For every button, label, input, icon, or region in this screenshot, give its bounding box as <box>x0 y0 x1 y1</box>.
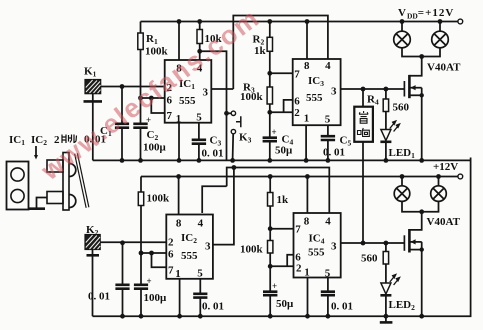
svg-text:4: 4 <box>325 216 331 228</box>
svg-text:3: 3 <box>203 87 209 99</box>
wire IC4 pin5 <box>327 278 329 292</box>
svg-text:5: 5 <box>197 268 203 280</box>
svg-text:3: 3 <box>205 241 211 253</box>
capacitor C4 50u <box>269 112 271 137</box>
wire IC1 pin1 to ground <box>178 123 180 161</box>
resistor 1k bottom-middle <box>269 177 271 193</box>
svg-text:0. 01: 0. 01 <box>323 147 345 159</box>
svg-text:5: 5 <box>196 112 202 124</box>
lamp L1 <box>401 22 403 32</box>
svg-text:555: 555 <box>306 92 323 104</box>
wire IC3 pin5 <box>327 125 329 136</box>
svg-text:1: 1 <box>304 267 310 279</box>
wire K1 to pin2 IC1 <box>101 86 165 88</box>
resistor 10k on IC1 pin4 <box>199 22 201 30</box>
wire VDD rail top <box>141 21 459 23</box>
wire IC3 pin3 output <box>341 88 405 90</box>
wire IC1 pin8 to rail <box>178 22 180 61</box>
capacitor C3 0.01 <box>192 140 206 144</box>
wire junction dots on VDD rail <box>177 19 443 24</box>
svg-text:6: 6 <box>168 249 174 261</box>
svg-text:2: 2 <box>168 237 174 249</box>
svg-text:+: + <box>272 281 277 291</box>
svg-text:560: 560 <box>361 253 378 265</box>
wire K1 plate to ground rail <box>92 101 94 160</box>
svg-text:50μ: 50μ <box>275 145 293 157</box>
glyph xiang <box>358 128 370 137</box>
capacitor C2 100u <box>133 124 147 128</box>
wire IC3 pin1 to ground <box>305 125 307 160</box>
capacitor 0.01 under IC2 pin5 <box>193 294 207 298</box>
LED1 <box>381 130 391 141</box>
wire reset-node to K3 column <box>200 51 227 160</box>
svg-text:7: 7 <box>168 265 174 277</box>
LED2 <box>381 283 391 294</box>
node 1k/100k junction pin7 <box>268 226 273 231</box>
svg-text:100k: 100k <box>145 46 169 58</box>
ground lead from lower pin <box>37 198 48 209</box>
svg-text:V40AT: V40AT <box>427 62 461 74</box>
svg-text:100μ: 100μ <box>143 142 167 154</box>
wire IC2 pin6 to 100k column <box>141 252 166 254</box>
svg-text:+: + <box>146 115 151 125</box>
glyph jiao (pin) <box>62 135 77 144</box>
capacitor C5 0.01 <box>321 136 335 140</box>
svg-text:3: 3 <box>331 86 337 98</box>
svg-text:1k: 1k <box>277 194 290 206</box>
node 100k bottom junction <box>268 264 273 269</box>
svg-text:560: 560 <box>393 102 410 114</box>
svg-text:4: 4 <box>325 60 331 72</box>
lamp L4 <box>438 177 440 186</box>
ground symbol below rail <box>385 316 387 322</box>
wire to IC3 pin2 and pin6 jog <box>270 111 293 113</box>
wire ground rail bottom section <box>93 158 471 317</box>
svg-text:6: 6 <box>294 96 300 108</box>
svg-text:1k: 1k <box>254 45 267 57</box>
capacitor C1 0.01 <box>121 87 123 124</box>
wire IC2 pin5 <box>199 279 201 294</box>
wire IC2 pin3 riser <box>213 168 234 245</box>
wire IC1 pin5 <box>198 123 200 140</box>
svg-text:100k: 100k <box>147 193 171 205</box>
node VDD terminal <box>458 19 463 24</box>
capacitor 50u <box>269 266 271 291</box>
svg-text:555: 555 <box>308 247 325 259</box>
wire to IC4 pin2 and pin6 jog <box>270 265 293 267</box>
jack contact arcs <box>69 164 76 208</box>
jack lever slanted <box>76 154 88 208</box>
wire IC2 pin1 <box>179 279 181 316</box>
jack lower pin <box>47 192 63 204</box>
svg-text:7: 7 <box>294 69 300 81</box>
wire arrow from IC2 to plug pin <box>35 146 37 156</box>
resistor R1 100k <box>140 22 142 34</box>
svg-text:1: 1 <box>175 268 181 280</box>
svg-text:+: + <box>272 127 277 137</box>
svg-text:8: 8 <box>304 60 310 72</box>
speaker sound box (yin xiang) <box>362 89 364 107</box>
wire pin6 jog to pin7 <box>151 98 164 113</box>
wire IC4 pin1 <box>307 278 309 317</box>
svg-text:8: 8 <box>304 216 310 228</box>
svg-text:+12V: +12V <box>433 161 458 173</box>
resistor R2 1k <box>269 22 271 38</box>
wire IC1 pin3 output <box>211 88 233 90</box>
jack plate <box>63 153 69 211</box>
svg-text:100μ: 100μ <box>144 292 168 304</box>
watermark <box>35 2 265 186</box>
connector socket box <box>7 162 29 210</box>
wire to IC4 pin7 <box>270 228 293 230</box>
node +12V terminal <box>458 174 463 179</box>
svg-text:2: 2 <box>294 107 300 119</box>
wire +12V rail bottom section <box>141 176 458 178</box>
lamp L2 <box>439 22 441 32</box>
svg-text:0. 01: 0. 01 <box>88 291 110 303</box>
wire IC1 pin6 to R1/C2 column <box>141 97 165 99</box>
wire R1 bottom to C2 <box>140 50 142 124</box>
svg-text:50μ: 50μ <box>276 298 294 310</box>
capacitor 0.01 under IC4 pin5 <box>321 292 335 296</box>
wire pin3 node up and across to IC3 pin4 <box>233 16 328 90</box>
IC IC1 555 timer <box>165 60 212 123</box>
wire reset net line2 between pin4s <box>227 168 330 214</box>
wire IC2 pin8 to rail <box>178 177 180 215</box>
resistor 100k bottom-left <box>140 177 142 193</box>
resistor 560 bottom <box>385 243 387 252</box>
capacitor 100u bottom-left <box>134 285 148 289</box>
svg-text:5: 5 <box>325 114 331 126</box>
wire IC4 pin8 to rail <box>306 177 308 214</box>
svg-text:7: 7 <box>295 224 301 236</box>
resistor R3 100k <box>269 73 271 87</box>
svg-text:0. 01: 0. 01 <box>331 301 353 313</box>
wire K2 to IC2 pin2 <box>100 241 166 243</box>
svg-text:8: 8 <box>176 218 182 230</box>
node 10k bottom junction <box>197 49 202 54</box>
IC IC3 555 timer <box>293 59 341 125</box>
IC IC4 555 timer <box>294 213 341 278</box>
IC IC2 555 timer <box>166 215 213 279</box>
node lamps junction bottom <box>419 209 424 214</box>
wire IC4 pin3 output <box>341 242 405 244</box>
jack upper pin <box>47 160 63 172</box>
wire ground rail top section <box>93 159 471 161</box>
capacitor 0.01 bottom-left <box>122 243 124 285</box>
svg-text:1: 1 <box>304 113 310 125</box>
capacitor 100u column continues <box>140 253 142 285</box>
wire to IC3 pin7 <box>270 72 293 74</box>
wire K1 lower plate <box>92 93 94 101</box>
resistor 100k bottom-middle <box>269 229 271 241</box>
svg-text:+: + <box>147 276 152 286</box>
lamp L3 <box>401 177 403 186</box>
svg-text:3: 3 <box>331 241 337 253</box>
wire speaker bottom lead down to IC4 pin3 wire <box>362 142 364 243</box>
switch K3 <box>224 111 229 116</box>
svg-text:VDD=+12V: VDD=+12V <box>398 7 454 21</box>
svg-text:0. 01: 0. 01 <box>202 148 224 160</box>
svg-text:100k: 100k <box>240 244 264 256</box>
svg-text:V40AT: V40AT <box>427 216 461 228</box>
svg-text:0. 01: 0. 01 <box>202 301 224 313</box>
svg-text:555: 555 <box>181 250 198 262</box>
svg-text:7: 7 <box>167 110 173 122</box>
node R2/R3 junction pin7 <box>267 71 272 76</box>
wire IC3 pin8 to rail <box>306 22 308 60</box>
node R3 bottom junction <box>267 110 272 115</box>
svg-text:2: 2 <box>296 263 302 275</box>
svg-text:100k: 100k <box>240 91 264 103</box>
glyph yin <box>359 111 368 123</box>
svg-text:555: 555 <box>179 95 196 107</box>
svg-text:4: 4 <box>198 218 204 230</box>
node lamps junction <box>419 54 424 59</box>
